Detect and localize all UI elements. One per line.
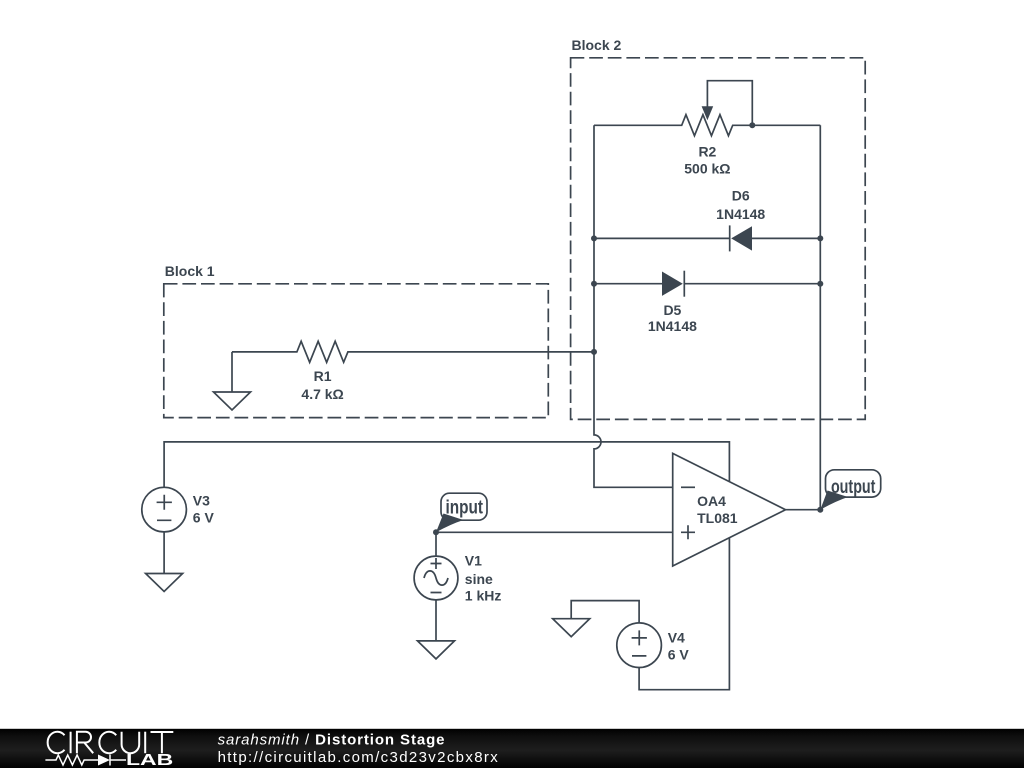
wire: input node to op-amp + input: [436, 531, 673, 533]
V4 value label: [668, 646, 690, 662]
footer logo resistor-diode glyph: [45, 755, 126, 766]
svg-text:4.7 kΩ: 4.7 kΩ: [301, 386, 343, 402]
svg-text:D5: D5: [663, 302, 681, 318]
svg-text:LAB: LAB: [126, 752, 173, 768]
Block 2 dashed box: [571, 58, 866, 420]
junction dot R1 right: [591, 349, 597, 355]
ground (V3): [146, 574, 183, 592]
D6 label: [732, 188, 750, 204]
svg-text:1N4148: 1N4148: [716, 206, 765, 222]
voltage source V1 (sine): [414, 556, 458, 600]
wire: R1 to ground drop: [231, 352, 233, 392]
R1 label: [314, 368, 332, 384]
footer logo LAB: [126, 752, 173, 768]
V4 label: [668, 629, 685, 645]
svg-text:OA4: OA4: [697, 493, 726, 509]
svg-text:output: output: [831, 477, 876, 498]
svg-text:V4: V4: [668, 629, 685, 645]
svg-text:Block 1: Block 1: [165, 263, 215, 279]
V3 label: [193, 492, 210, 508]
junction dot output node: [817, 507, 823, 513]
wire: right output vertical: [819, 125, 821, 509]
voltage source V4: [617, 623, 662, 668]
ground (V1): [418, 641, 455, 659]
wire: V3 to ground: [163, 532, 165, 574]
ground (Block 1): [214, 392, 251, 410]
wire: V+ rail from V3 to op-amp top supply: [164, 442, 729, 487]
R1 value label: [301, 386, 343, 402]
diode D6 (pointing left): [594, 225, 820, 251]
wire: left feedback vertical (inverting node) with hop over V+ rail: [594, 125, 673, 487]
junction dot R2 wiper: [749, 122, 755, 128]
svg-text:V3: V3: [193, 492, 210, 508]
potentiometer R2: [594, 81, 820, 136]
resistor R1: [232, 341, 594, 362]
junction dot input node: [433, 529, 439, 535]
svg-text:D6: D6: [732, 188, 750, 204]
diode D5 (pointing right): [594, 271, 820, 297]
wire: V4 plus to ground: [571, 601, 639, 623]
wire: input node down to V1: [435, 532, 437, 556]
junction dot D5 right: [817, 281, 823, 287]
OA4 label: [697, 493, 726, 509]
Block 1 dashed box: [164, 284, 549, 418]
D6 value label: [716, 206, 765, 222]
op-amp OA4: [673, 453, 786, 566]
V1 label: [465, 553, 482, 569]
junction dot D6 right: [817, 235, 823, 241]
wire: V1 to ground: [435, 600, 437, 641]
svg-text:6 V: 6 V: [193, 509, 215, 525]
D5 value label: [648, 318, 697, 334]
svg-text:6 V: 6 V: [668, 646, 690, 662]
svg-text:sine: sine: [465, 571, 493, 587]
svg-text:input: input: [446, 498, 484, 519]
input node flag: [436, 493, 487, 532]
wire: op-amp output to node: [786, 509, 821, 511]
V1 value label 1kHz: [465, 587, 502, 603]
footer logo CIRCUIT: [48, 732, 174, 754]
junction dot D6 left: [591, 235, 597, 241]
junction dot D5 left: [591, 281, 597, 287]
svg-text:R2: R2: [698, 144, 716, 160]
svg-text:500 kΩ: 500 kΩ: [684, 160, 730, 176]
svg-text:TL081: TL081: [697, 510, 738, 526]
svg-text:R1: R1: [314, 368, 332, 384]
OA4 value label TL081: [697, 510, 738, 526]
wire: op-amp bottom supply to V4: [639, 538, 729, 690]
svg-text:V1: V1: [465, 553, 482, 569]
Block 2 label: [572, 37, 622, 53]
svg-text:1 kHz: 1 kHz: [465, 587, 502, 603]
output node flag: [820, 470, 880, 510]
footer bar: [0, 729, 1024, 768]
footer title: [218, 731, 446, 748]
svg-text:sarahsmith / Distortion Stage: sarahsmith / Distortion Stage: [218, 731, 446, 748]
svg-text:1N4148: 1N4148: [648, 318, 697, 334]
Block 1 label: [165, 263, 215, 279]
D5 label: [663, 302, 681, 318]
ground (V4): [553, 619, 590, 637]
voltage source V3: [142, 487, 187, 532]
V1 value label sine: [465, 571, 493, 587]
R2 label: [698, 144, 716, 160]
R2 value label: [684, 160, 730, 176]
footer url: [218, 749, 500, 766]
svg-text:http://circuitlab.com/c3d23v2c: http://circuitlab.com/c3d23v2cbx8rx: [218, 749, 500, 766]
svg-text:Block 2: Block 2: [572, 37, 622, 53]
V3 value label: [193, 509, 215, 525]
